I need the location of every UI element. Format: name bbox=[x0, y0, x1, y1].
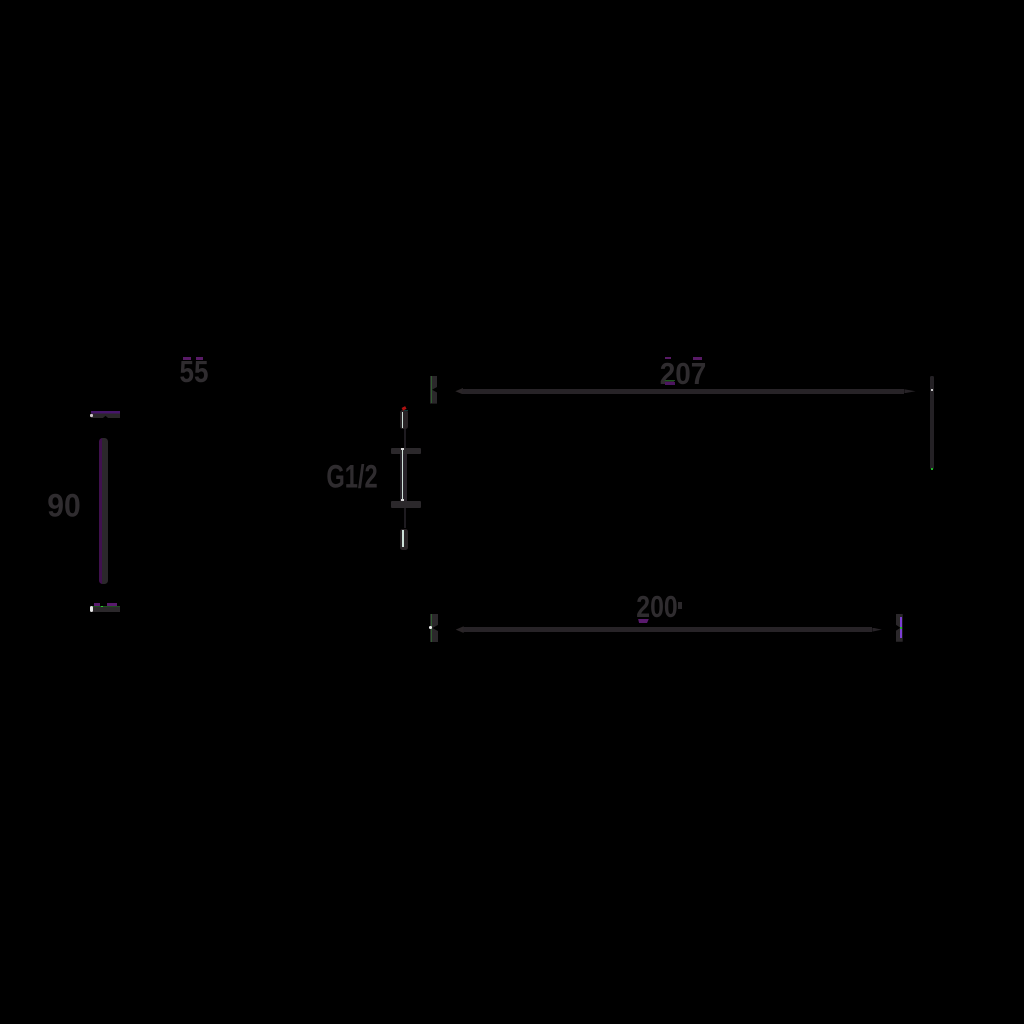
dimension 207: left tick bbox=[430, 376, 438, 404]
G1/2 port: lower tick bbox=[391, 501, 421, 507]
label 200 bbox=[636, 589, 677, 625]
dimension 207: green stripe in left tick bbox=[431, 376, 433, 403]
dimension 200: line bbox=[463, 627, 873, 632]
G1/2 port: red artifact dash bbox=[402, 407, 406, 411]
dimension 200: left tick bbox=[430, 614, 438, 643]
dimension 200: purple stripe in right tick bbox=[900, 617, 902, 638]
dimension 200: right taper bbox=[872, 628, 881, 632]
dimension 207: right extension line bbox=[930, 376, 934, 470]
G1/2 port: top capsule bbox=[400, 410, 408, 429]
artifact gray blob right of 200 bbox=[678, 602, 683, 609]
artifact purple cap over 207 bbox=[693, 357, 702, 360]
dimension 207: left arrowhead bbox=[455, 388, 463, 395]
dimension 207: right taper bbox=[904, 389, 915, 393]
artifact purple smear under 200 bbox=[638, 619, 649, 624]
G1/2 port: bottom capsule bbox=[400, 529, 408, 550]
artifact white blob on 90 top tick bbox=[90, 414, 92, 418]
dimension 90: bottom tick bbox=[92, 603, 120, 613]
dimension 200: right tick bbox=[896, 614, 903, 642]
G1/2 port: teal artifact dash bbox=[404, 410, 408, 412]
dimension 200: white dot left tick bbox=[429, 626, 432, 629]
label 55 bbox=[179, 354, 208, 390]
dimension 90: top tick bbox=[91, 411, 120, 418]
dimension 207: green dot bottom of extension bbox=[931, 468, 933, 470]
dimension 200: green stripe in left tick bbox=[431, 614, 433, 641]
artifact purple caps over 55 bbox=[183, 357, 191, 360]
dimension 207: line bbox=[462, 389, 904, 394]
G1/2 port: mint stripe between ticks bbox=[402, 448, 404, 500]
G1/2 port: bottom capsule core bbox=[402, 530, 404, 548]
label 90 bbox=[47, 488, 80, 525]
G1/2 port: centerline bbox=[404, 428, 406, 528]
G1/2 port: upper tick bbox=[391, 448, 421, 454]
G1/2 port: white dot bottom of stripe bbox=[401, 499, 403, 501]
dimension 207: white dot on extension bbox=[931, 389, 933, 391]
artifact purple cap over 2 of 207 bbox=[665, 357, 671, 360]
dimension 90: vertical bar bbox=[99, 438, 108, 583]
G1/2 port: mid dark bar bbox=[400, 454, 407, 503]
label 207 bbox=[660, 356, 707, 392]
artifact green underline under 207 bbox=[665, 380, 675, 382]
G1/2 port: top capsule core bbox=[402, 412, 404, 428]
dimension 200: green dot right tick bbox=[900, 627, 902, 629]
label G1/2 bbox=[326, 459, 377, 496]
G1/2 port: white dot top of stripe bbox=[401, 448, 403, 450]
artifact purple block under 207 bbox=[665, 382, 675, 385]
dimension 200: left arrowhead bbox=[456, 626, 464, 633]
